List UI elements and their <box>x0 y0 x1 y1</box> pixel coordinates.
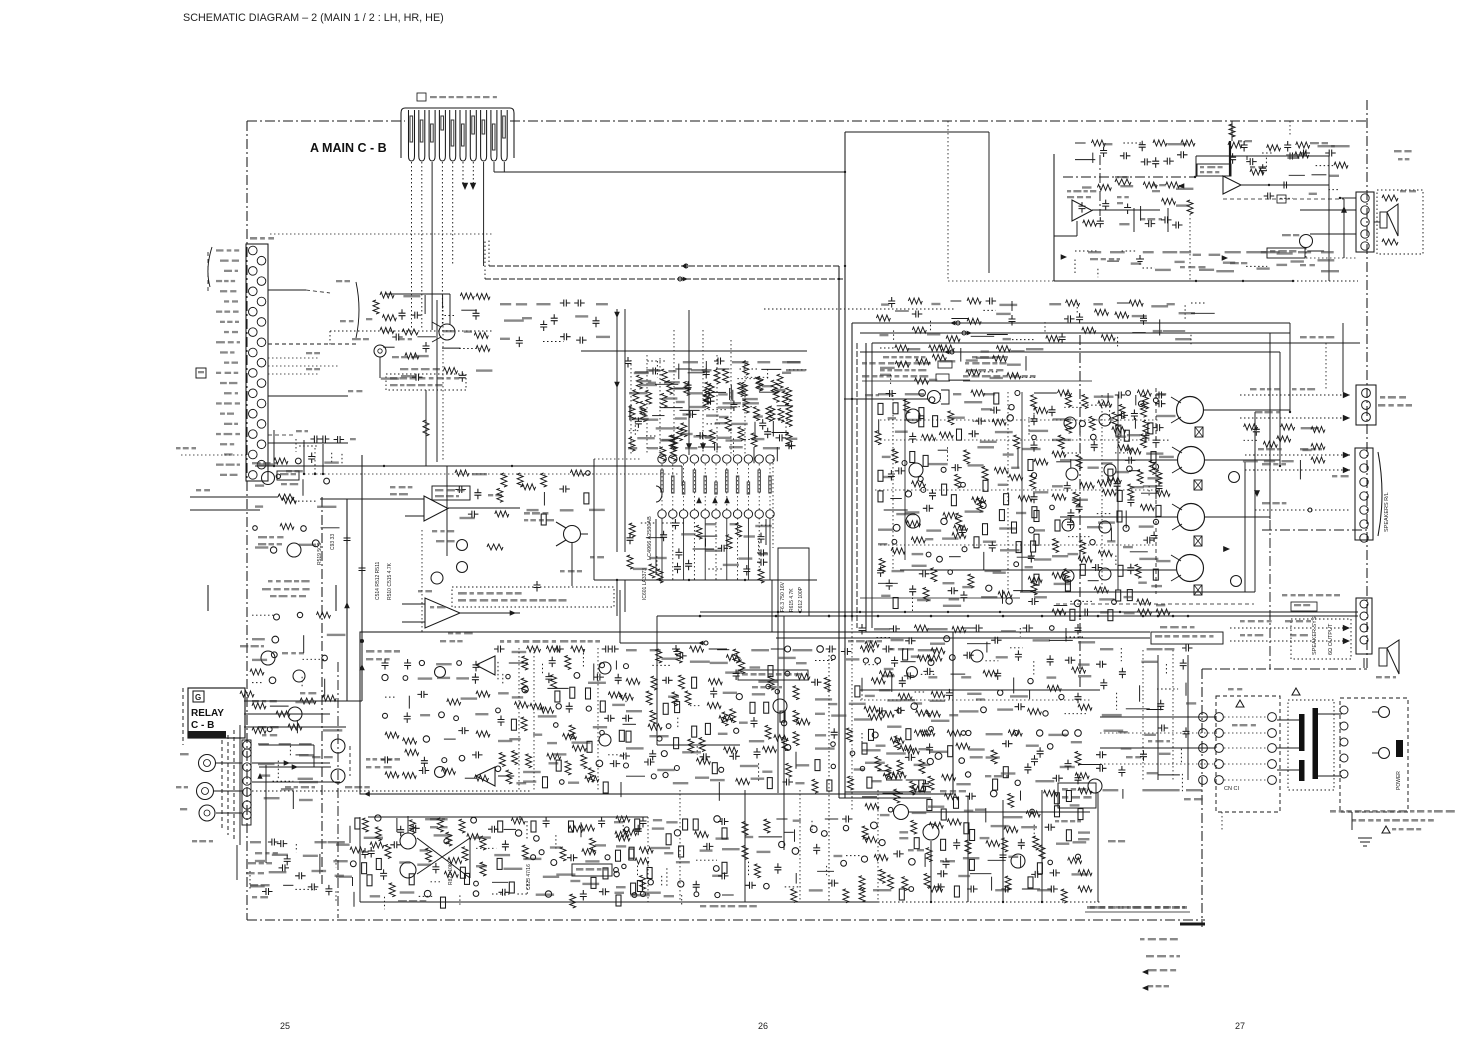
connector JK50 body <box>1356 192 1374 252</box>
wire <box>489 265 839 267</box>
value label <box>905 511 920 513</box>
value label <box>1008 856 1018 858</box>
CN703 pin 18 <box>257 420 266 429</box>
capacitor C48 <box>1118 412 1129 419</box>
jack J803 <box>199 805 215 821</box>
small part box <box>1291 602 1317 611</box>
resistor R98 <box>1116 425 1121 436</box>
transistor Q118 <box>935 753 942 760</box>
CN703 pin 4 <box>257 277 266 286</box>
bullet connector <box>1308 508 1312 512</box>
resistor R246 <box>560 847 566 861</box>
capacitor C61 <box>888 297 895 308</box>
resistor R220 <box>719 716 733 722</box>
label <box>1300 264 1306 266</box>
wire <box>555 835 557 851</box>
wire <box>851 620 853 812</box>
connector JP4J pin 10 <box>501 110 507 161</box>
capacitor C12 <box>703 368 710 379</box>
capacitor C71 <box>1177 151 1188 158</box>
resistor R181 <box>572 745 586 751</box>
capacitor C27 <box>1031 415 1038 426</box>
value label <box>650 649 661 651</box>
label <box>180 753 189 755</box>
wire <box>1017 449 1019 469</box>
wire <box>973 420 996 422</box>
node <box>1279 465 1281 467</box>
resistor R107 <box>1127 448 1141 454</box>
resistor R126 <box>1078 556 1092 562</box>
transistor Q152 <box>287 543 301 557</box>
block note row1 <box>883 356 889 358</box>
resistor R284 <box>897 760 903 774</box>
value label <box>456 677 469 679</box>
label P812 <box>1184 798 1191 800</box>
JK50 pin 3 <box>1361 218 1369 226</box>
resistor R73 <box>1012 522 1017 533</box>
transistor Q101 leads <box>556 522 588 546</box>
resistor R8 <box>584 493 589 504</box>
value label <box>1156 604 1165 606</box>
label <box>524 519 528 521</box>
wire <box>815 660 834 662</box>
resistor R238 <box>531 821 536 832</box>
transistor Q99 <box>927 758 933 764</box>
value label <box>1011 467 1019 469</box>
resistor R370 <box>929 886 943 892</box>
IC label2 <box>560 640 568 643</box>
resistor R26 <box>670 447 676 461</box>
label <box>1400 190 1406 192</box>
wire <box>190 496 278 498</box>
wire <box>922 734 934 736</box>
value label <box>871 780 881 782</box>
resistor R142 <box>1138 609 1152 615</box>
wire <box>659 358 661 455</box>
wire <box>683 518 685 580</box>
capacitor C82 <box>604 715 615 722</box>
value label <box>1104 730 1124 732</box>
jack J801 inner <box>204 760 211 767</box>
wire <box>190 509 260 511</box>
value label <box>888 417 896 419</box>
wire <box>1141 492 1159 494</box>
wire <box>1245 469 1350 471</box>
wire <box>730 340 732 455</box>
CN703 pin 21 <box>249 450 258 459</box>
resistor R20 <box>786 403 792 417</box>
capacitor C79 <box>615 674 622 685</box>
wire <box>1020 591 1255 593</box>
value label <box>662 439 675 441</box>
value label <box>1102 714 1122 716</box>
capacitor C28 <box>909 433 916 444</box>
resistor R324 <box>993 779 998 790</box>
resistor R330 <box>954 797 959 808</box>
value label <box>1078 831 1090 833</box>
wire <box>1120 648 1122 661</box>
transistor Q153 <box>261 651 275 665</box>
wire <box>1240 417 1350 419</box>
CN-CI pin 2a <box>1199 729 1208 738</box>
value label <box>475 713 488 715</box>
resistor R1 <box>455 470 469 476</box>
op-amp IC101b label <box>430 606 434 608</box>
label <box>1055 820 1059 822</box>
value label <box>763 447 780 449</box>
IC201 top pin 7 <box>723 455 731 463</box>
transistor Q94 <box>929 727 934 732</box>
value label <box>328 841 345 843</box>
transistor Q76 <box>614 871 619 876</box>
transistor Q21 <box>937 556 943 562</box>
resistor R160 <box>626 679 640 685</box>
resistor R31 <box>893 403 898 414</box>
wire <box>295 439 297 452</box>
wire <box>469 838 471 878</box>
svg-text:25: 25 <box>280 1021 290 1031</box>
svg-text:SPEAKERS R/L: SPEAKERS R/L <box>1384 492 1390 532</box>
wire <box>1343 199 1345 258</box>
resistor R241 <box>581 825 595 831</box>
capacitor C76 <box>549 657 556 668</box>
pin 8 label <box>482 120 485 134</box>
wire <box>608 754 625 756</box>
value label <box>694 435 712 437</box>
value label <box>1124 596 1134 598</box>
muting label <box>1062 788 1068 791</box>
resistor R365 <box>1005 876 1011 890</box>
label <box>1290 634 1296 636</box>
label <box>300 692 305 694</box>
value label <box>443 330 455 332</box>
capacitor C56 <box>1143 537 1154 544</box>
resistor R111 <box>1080 482 1094 488</box>
capacitor C69 <box>1152 157 1159 168</box>
value label <box>963 857 980 859</box>
label <box>1115 176 1119 178</box>
resistor R50 <box>994 468 1008 474</box>
transistor Q306 <box>1178 504 1205 531</box>
resistor R215 <box>780 711 785 722</box>
label <box>1240 634 1245 636</box>
CN-CI pin 3c <box>1268 744 1277 753</box>
interior dash-dot vertical 2 <box>1079 335 1081 690</box>
value label <box>997 708 1013 710</box>
transistor Q116 <box>1075 730 1082 737</box>
transistor Q31 <box>1091 434 1097 440</box>
value label <box>1070 804 1080 806</box>
value label <box>272 854 288 856</box>
wire <box>1092 153 1094 163</box>
wire <box>1100 732 1216 734</box>
capacitor C65 <box>1139 141 1146 152</box>
resistor R12 <box>636 375 642 389</box>
node <box>851 398 853 400</box>
value label <box>878 393 892 395</box>
value label <box>1078 838 1089 840</box>
node <box>777 611 779 613</box>
pin stub <box>683 464 685 510</box>
value label <box>1052 555 1068 557</box>
resistor R301 <box>1027 709 1041 715</box>
value label <box>682 751 701 753</box>
emitter resistor RE3 <box>1194 536 1202 546</box>
value label <box>498 692 509 694</box>
capacitor C33 <box>888 470 895 481</box>
label <box>1180 266 1185 268</box>
CN801 pin 5 <box>243 788 251 796</box>
resistor R33 <box>919 408 924 419</box>
JK50 pin 4 <box>1361 230 1369 238</box>
wire <box>747 518 749 580</box>
resistor R125 <box>1080 540 1086 554</box>
value label <box>880 334 889 336</box>
capacitor C29 <box>968 430 979 437</box>
capacitor C59 <box>1127 564 1134 575</box>
bus wire <box>776 637 1150 639</box>
transistor Q95 <box>831 742 836 747</box>
connector JK51 body <box>1356 385 1376 425</box>
resistor R315 <box>875 757 881 771</box>
resistor R2 <box>501 473 507 487</box>
pin link <box>1224 763 1267 765</box>
IC block top line <box>581 350 807 352</box>
service note bracket <box>208 585 336 611</box>
value label <box>1103 789 1119 791</box>
transistor Q97 <box>831 764 835 768</box>
bracket right <box>1167 208 1169 232</box>
switch bar <box>1396 740 1403 757</box>
value label <box>549 762 559 764</box>
value label <box>1156 415 1176 417</box>
label <box>252 462 261 464</box>
wire <box>329 331 331 345</box>
value label <box>918 649 937 651</box>
value label <box>1072 873 1089 875</box>
transistor Q82 <box>403 676 408 681</box>
ref mark box <box>196 368 206 378</box>
svg-text:C823 47/16: C823 47/16 <box>526 864 532 890</box>
wire <box>1230 640 1350 642</box>
resistor R317 <box>919 760 925 774</box>
CN703 pin 9 <box>249 328 258 337</box>
IC label line2 <box>1200 171 1204 173</box>
capacitor C163 <box>1045 824 1056 831</box>
capacitor C36 <box>923 505 934 512</box>
label <box>1117 202 1123 204</box>
value label <box>751 649 769 651</box>
transistor Q112 <box>966 730 971 735</box>
resistor R58 <box>1030 475 1036 489</box>
preamp box <box>360 632 953 794</box>
capacitor C119 <box>417 691 428 698</box>
label <box>560 570 565 572</box>
resistor R304 <box>914 730 928 736</box>
wire <box>877 790 879 902</box>
transistor Q84 <box>439 712 445 718</box>
transistor Q103 <box>949 655 955 661</box>
resistor R199 <box>692 677 697 688</box>
value label <box>930 751 948 753</box>
value label <box>999 304 1017 306</box>
arrow up <box>724 497 730 503</box>
comparator U401 <box>476 656 495 675</box>
wire <box>983 552 985 570</box>
wire <box>948 280 1055 282</box>
transistor Q29 <box>1153 398 1158 403</box>
CN801 pin 6 <box>243 801 251 809</box>
capacitor C9 <box>625 357 632 368</box>
label <box>192 840 197 842</box>
resistor R267 <box>475 775 489 781</box>
value label <box>718 733 728 735</box>
resistor R293 <box>928 655 942 661</box>
resistor R177 <box>499 753 505 767</box>
wire <box>1279 352 1281 466</box>
value label <box>1025 566 1033 568</box>
value label <box>854 718 871 720</box>
wire <box>249 871 251 889</box>
note arrow <box>1142 969 1148 975</box>
svg-text:C514 R512 R511: C514 R512 R511 <box>375 562 381 600</box>
capacitor C168 <box>937 870 948 877</box>
value label <box>683 361 698 363</box>
pin 4 label <box>441 116 444 130</box>
small part label <box>1294 604 1301 606</box>
wire <box>244 713 330 715</box>
capacitor C64 <box>1009 315 1016 326</box>
wire <box>1230 627 1350 629</box>
transistor Q78 <box>640 891 645 896</box>
value label <box>762 771 772 773</box>
resistor R256 <box>640 875 646 889</box>
wire <box>509 662 528 664</box>
transistor Q77 <box>545 891 551 897</box>
capacitor C123 <box>421 757 428 768</box>
value label <box>881 303 889 305</box>
capacitor C90 <box>751 717 758 728</box>
connector CN62 body <box>1356 598 1372 654</box>
capacitor C67 <box>1120 152 1131 159</box>
capacitor C124 <box>472 751 483 758</box>
pin stub <box>747 464 749 510</box>
resistor R222 <box>796 719 810 725</box>
transistor Q92 <box>928 660 934 666</box>
CN703 pin 5 <box>249 287 258 296</box>
resistor R319 <box>867 777 872 788</box>
resistor R231 <box>696 758 710 764</box>
resistor R249 <box>629 849 634 860</box>
wire <box>737 518 739 580</box>
transistor Q54 <box>785 646 791 652</box>
transistor Q15 <box>980 503 986 509</box>
wire <box>594 458 640 460</box>
resistor R200 <box>708 679 722 685</box>
value label <box>927 333 940 335</box>
resistor R273 <box>855 686 860 697</box>
bullet connector <box>704 641 708 645</box>
wire <box>502 674 504 686</box>
label 50/60 <box>1392 828 1396 830</box>
label CN61 <box>1332 475 1337 477</box>
capacitor C19 <box>696 432 707 439</box>
capacitor C77 <box>545 673 552 684</box>
wire <box>1325 343 1327 390</box>
capacitor C190 <box>392 334 403 341</box>
resistor R165 <box>619 694 633 700</box>
transistor Q60 <box>781 720 786 725</box>
CN-CI pin 1c <box>1268 713 1277 722</box>
resistor R134 <box>1065 580 1070 591</box>
value label <box>436 663 452 665</box>
capacitor C26 <box>975 418 986 425</box>
wire <box>268 434 294 436</box>
value label <box>976 698 985 700</box>
wire <box>1374 221 1380 223</box>
resistor R268 <box>860 646 874 652</box>
wire <box>341 454 343 465</box>
resistor R197 <box>651 676 657 690</box>
value label <box>685 447 697 449</box>
value label <box>980 441 997 443</box>
wire <box>1049 639 1073 641</box>
transistor Q37 <box>1090 540 1095 545</box>
value label <box>336 844 350 846</box>
label <box>306 368 312 370</box>
node <box>877 615 880 618</box>
node <box>1339 197 1341 199</box>
warning triangle <box>1236 700 1244 707</box>
capacitor C130 <box>899 677 906 688</box>
resistor R23 <box>709 430 715 444</box>
label <box>250 884 258 886</box>
capacitor C122 <box>381 756 392 763</box>
value label <box>831 714 846 716</box>
node <box>360 639 364 643</box>
wire <box>947 447 949 461</box>
IC201 top pin 2 <box>669 455 677 463</box>
capacitor C188 <box>411 312 422 319</box>
transistor Q405 <box>773 699 787 713</box>
capacitor C7 <box>559 486 570 493</box>
speaker icon cone <box>1387 640 1399 674</box>
label <box>1152 184 1157 186</box>
note line3 <box>1148 969 1157 971</box>
IC201 bottom pin 3 <box>679 510 687 518</box>
resistor R373 <box>1078 886 1092 892</box>
op-amp IC551a output <box>1092 209 1160 211</box>
wire <box>891 672 893 692</box>
transformer winding bar 2 <box>1299 760 1305 781</box>
transistor Q47 <box>586 706 591 711</box>
thick feed wire <box>1229 141 1231 176</box>
value label <box>881 595 890 597</box>
resistor R53 <box>912 481 926 487</box>
svg-text:G: G <box>195 693 201 702</box>
resistor R351 <box>926 848 932 862</box>
connector JP4J pin 5 <box>450 110 456 161</box>
resistor R32 <box>904 399 910 413</box>
capacitor C95 <box>644 759 655 766</box>
transistor Q128 <box>909 859 916 866</box>
wire <box>445 315 456 317</box>
wire <box>839 797 931 799</box>
pin stub <box>672 464 674 510</box>
transistor Q113 <box>1014 731 1019 736</box>
resistor R78 <box>1031 541 1036 552</box>
capacitor C169 <box>1031 871 1042 878</box>
